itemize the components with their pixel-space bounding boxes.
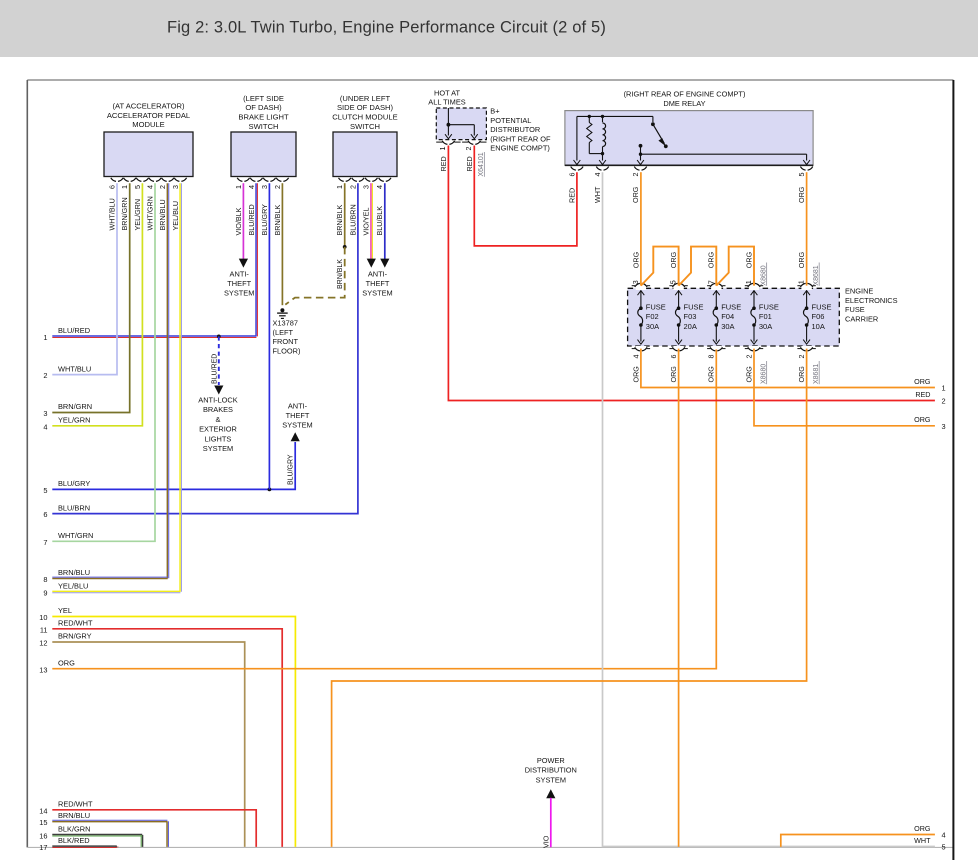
connector label X8681 bottom [813,361,820,384]
node pin 9 (YEL/BLU) left connector [43,581,88,597]
svg-text:ORG: ORG [914,824,931,833]
node brake light switch pin 4 [247,178,263,236]
svg-text:BRN/BLU: BRN/BLU [58,811,90,820]
svg-text:BRN/BLU: BRN/BLU [58,568,90,577]
svg-text:(RIGHT REAR OF ENGINE COMPT): (RIGHT REAR OF ENGINE COMPT) [624,89,746,98]
svg-text:6: 6 [669,355,678,359]
svg-text:6: 6 [107,185,116,189]
svg-text:ORG: ORG [914,415,931,424]
svg-text:1: 1 [120,185,129,189]
node pin 12 (BRN/GRY) left connector [39,632,91,648]
wire BRN/BLU from pin 15 [52,820,168,847]
svg-text:FUSE: FUSE [721,303,741,312]
svg-text:7: 7 [706,280,715,284]
svg-text:3: 3 [260,185,269,189]
svg-text:BLK/RED: BLK/RED [58,836,90,845]
svg-text:4: 4 [631,355,640,359]
B+ potential distributor box [436,108,486,140]
wire BLK/RED from pin 17 [52,846,118,847]
wire BRN/BLK clutch pin1 solid [343,183,347,249]
svg-text:POWER: POWER [537,756,565,765]
wire BRN/GRN from pin 3 [52,183,129,412]
fuse F03 20A [675,291,703,345]
svg-text:FUSE: FUSE [759,303,779,312]
svg-text:ORG: ORG [707,366,716,383]
svg-text:ANTI-: ANTI- [288,402,308,411]
svg-text:YEL/GRN: YEL/GRN [58,416,90,425]
svg-text:ENGINE: ENGINE [845,287,873,296]
wire YEL from pin 10 [52,617,295,847]
svg-text:5: 5 [797,173,806,177]
svg-text:1: 1 [942,384,946,393]
svg-text:Fig 2: 3.0L Twin Turbo, Engine: Fig 2: 3.0L Twin Turbo, Engine Performan… [167,19,606,37]
power distribution system label [525,756,577,784]
node pin 7 (WHT/GRN) left connector [43,531,93,547]
svg-text:(LEFT: (LEFT [273,328,294,337]
wire BRN/GRY from pin 12 [52,642,244,847]
svg-text:&: & [216,415,221,424]
wire WHT/BLU from pin 2 [52,183,117,374]
svg-text:RED/WHT: RED/WHT [58,800,93,809]
svg-text:2: 2 [348,185,357,189]
wire BLU/RED dashed branch to anti-lock brakes [211,336,223,394]
svg-text:ENGINE COMPT): ENGINE COMPT) [490,144,550,153]
svg-text:10: 10 [39,613,47,622]
module clutch module switch [332,94,397,177]
svg-text:DME RELAY: DME RELAY [663,99,705,108]
svg-text:3: 3 [43,409,47,418]
svg-text:17: 17 [39,843,47,852]
fuse F04 30A [713,291,741,345]
node fuse F01 bottom pin 2 [744,346,763,383]
wire BRN/BLK dashed to ground X13787 [285,247,344,305]
node fuse F04 top pin 7 [706,251,725,290]
node clutch switch pin 3 [362,178,378,236]
wire BLU/GRY brake pin3 [268,183,270,489]
wire RED/WHT from pin 14 [52,810,256,847]
svg-text:7: 7 [43,538,47,547]
wire RED B+ pin1 to right exit 2 [448,146,935,401]
svg-text:2: 2 [942,397,946,406]
node right exit 4 (ORG) [914,824,946,840]
node B+ pin 2 [462,141,486,172]
wire ORG relay pin5 to fuse F06 [806,172,808,285]
node pin 2 (WHT/BLU) left connector [43,364,91,380]
svg-text:YEL/BLU: YEL/BLU [171,201,180,231]
svg-text:BLU/GRY: BLU/GRY [58,479,90,488]
node pin 16 (BLK/GRN) left connector [39,825,90,841]
svg-text:1: 1 [744,280,753,284]
svg-text:THEFT: THEFT [286,411,310,420]
svg-text:RED: RED [439,156,448,171]
anti-lock brakes system label [198,396,237,454]
svg-text:6: 6 [567,173,576,177]
wire BRN/BLU from pin 8 [52,183,168,578]
wire VIO to power distribution system [541,789,555,848]
wire WHT/GRN from pin 7 [52,183,155,541]
svg-text:ORG: ORG [631,366,640,383]
svg-text:1: 1 [335,185,344,189]
svg-text:YEL: YEL [58,606,72,615]
svg-text:30A: 30A [646,322,659,331]
svg-text:(LEFT SIDE: (LEFT SIDE [243,94,284,103]
svg-text:LIGHTS: LIGHTS [205,434,232,443]
fuse F02 30A [638,291,666,345]
svg-text:OF DASH): OF DASH) [245,103,282,112]
svg-text:BRN/BLK: BRN/BLK [273,205,282,236]
svg-text:BRAKE LIGHT: BRAKE LIGHT [238,113,289,122]
connector label X64101 [478,152,485,177]
svg-text:FUSE: FUSE [646,303,666,312]
svg-text:RED: RED [567,188,576,203]
svg-text:RED: RED [915,390,930,399]
svg-text:4: 4 [375,185,384,189]
wire ORG jumper between fuse tops [679,247,717,286]
svg-text:VIO/YEL: VIO/YEL [362,208,371,236]
svg-text:4: 4 [43,422,47,431]
wire ORG fuse F06 down and left off page [332,349,807,847]
svg-text:1: 1 [797,280,806,284]
svg-text:BRN/BLU: BRN/BLU [158,199,167,230]
module accelerator pedal module [104,102,193,177]
node DME relay pin 5 [797,167,813,203]
svg-text:3: 3 [631,280,640,284]
wire BLU/BRN from pin 6 [52,183,358,513]
svg-text:ALL TIMES: ALL TIMES [428,98,465,107]
svg-text:F04: F04 [721,312,734,321]
svg-text:15: 15 [39,818,47,827]
node fuse F06 bottom pin 2 [797,346,816,383]
svg-text:BLU/BRN: BLU/BRN [58,503,90,512]
node accelerator module pin 2 [158,178,174,231]
svg-text:ORG: ORG [669,366,678,383]
svg-text:6: 6 [43,510,47,519]
relay internal resistor [587,115,592,154]
svg-text:ORG: ORG [669,251,678,268]
svg-text:FUSE: FUSE [845,305,865,314]
connector label X8680 bottom [760,361,767,384]
svg-text:5: 5 [43,486,47,495]
svg-text:BLU/GRY: BLU/GRY [288,454,295,485]
node right exit 2 (RED) [915,390,945,406]
node pin 4 (YEL/GRN) left connector [43,416,90,432]
node brake light switch pin 2 [273,178,289,236]
svg-text:2: 2 [273,185,282,189]
wire ORG fuse F01 to right exit 3 [754,349,935,426]
svg-text:ACCELERATOR PEDAL: ACCELERATOR PEDAL [107,111,190,120]
node accelerator module pin 3 [171,178,187,231]
node pin 10 (YEL) left connector [39,606,72,622]
label B+ potential distributor [490,107,551,153]
svg-text:DISTRIBUTION: DISTRIBUTION [525,766,577,775]
svg-text:ANTI-LOCK: ANTI-LOCK [198,396,237,405]
wire ORG from off page to right exit 4 [781,835,935,847]
node fuse F03 top pin 5 [669,251,688,290]
node DME relay pin 6 [567,167,583,203]
node right exit 1 (ORG) [914,377,946,393]
wire YEL/GRN from pin 4 [52,183,142,426]
svg-text:BRAKES: BRAKES [203,405,233,414]
svg-text:2: 2 [631,173,640,177]
svg-text:MODULE: MODULE [132,120,165,129]
svg-text:F06: F06 [812,312,825,321]
title bar [0,0,978,57]
svg-text:YEL/GRN: YEL/GRN [133,199,142,231]
svg-text:ANTI-: ANTI- [368,269,388,278]
svg-text:WHT/BLU: WHT/BLU [58,364,91,373]
svg-text:BRN/GRN: BRN/GRN [58,402,92,411]
node pin 17 (BLK/RED) left connector [39,836,89,852]
wire RED B+ pin2 to DME relay pin 6 [474,146,577,246]
svg-text:12: 12 [39,639,47,648]
svg-text:ORG: ORG [631,251,640,268]
wire YEL/BLU from pin 9 [52,183,181,593]
node fuse F01 top pin 1 [744,251,763,290]
node brake light switch pin 3 [260,178,276,236]
fuse carrier box [628,288,840,346]
svg-text:EXTERIOR: EXTERIOR [199,425,237,434]
svg-text:F03: F03 [684,312,697,321]
wire BLU/BLK clutch pin4 to anti-theft [380,183,389,267]
node accelerator module pin 1 [120,178,136,231]
node pin 15 (BRN/BLU) left connector [39,811,90,827]
node pin 1 (BLU/RED) left connector [43,326,90,342]
svg-text:CLUTCH MODULE: CLUTCH MODULE [332,113,397,122]
wire ORG from pin 13 [52,349,716,669]
ground X13787 [277,308,288,318]
svg-text:X13787: X13787 [273,319,298,328]
node right exit 3 (ORG) [914,415,946,431]
svg-text:ORG: ORG [797,186,806,203]
svg-text:ANTI-: ANTI- [230,269,250,278]
fuse F06 10A [803,291,831,345]
svg-text:5: 5 [942,843,946,852]
svg-text:YEL/BLU: YEL/BLU [58,581,88,590]
wire ORG jumper between fuse tops [641,247,679,286]
svg-text:FUSE: FUSE [812,303,832,312]
svg-text:(AT ACCELERATOR): (AT ACCELERATOR) [112,102,184,111]
node pin 13 (ORG) left connector [39,658,75,674]
connector label X8681 top [813,263,820,286]
svg-text:8: 8 [43,575,47,584]
svg-text:WHT/BLU: WHT/BLU [107,198,116,230]
svg-text:SYSTEM: SYSTEM [224,289,254,298]
svg-text:3: 3 [362,185,371,189]
svg-text:10A: 10A [812,322,825,331]
svg-text:ORG: ORG [631,186,640,203]
svg-text:F01: F01 [759,312,772,321]
wire WHT relay pin4 to right exit 5 [603,172,935,846]
svg-text:30A: 30A [721,322,734,331]
anti-theft system label (vio/blk) [224,269,254,297]
svg-text:FLOOR): FLOOR) [273,346,301,355]
node DME relay pin 2 [631,167,647,203]
svg-text:5: 5 [133,185,142,189]
module brake light switch [231,94,296,177]
ground label X13787 (left front floor) [273,319,301,356]
svg-text:SWITCH: SWITCH [350,122,380,131]
svg-text:FRONT: FRONT [273,337,299,346]
svg-text:RED/WHT: RED/WHT [58,619,93,628]
svg-text:BLU/GRY: BLU/GRY [260,204,269,236]
svg-text:WHT/GRN: WHT/GRN [145,196,154,230]
svg-text:BLU/BLK: BLU/BLK [375,206,384,236]
node accelerator module pin 6 [107,178,123,231]
svg-text:2: 2 [464,147,473,151]
node fuse F04 bottom pin 8 [707,346,726,383]
svg-text:BRN/GRN: BRN/GRN [120,197,129,230]
svg-text:5: 5 [669,280,678,284]
svg-text:1: 1 [234,185,243,189]
svg-text:SIDE OF DASH): SIDE OF DASH) [337,103,394,112]
svg-text:BLU/RED: BLU/RED [58,326,90,335]
svg-text:BRN/BLK: BRN/BLK [337,259,344,289]
node fuse F03 bottom pin 6 [669,346,688,383]
label engine electronics fuse carrier [845,287,898,324]
svg-text:4: 4 [942,831,946,840]
svg-text:8: 8 [707,355,716,359]
svg-text:WHT/GRN: WHT/GRN [58,531,93,540]
svg-text:B+: B+ [490,107,499,116]
wire ORG fuse F02 to right exit 1 [641,349,935,388]
wire BLU/GRY from pin 5 [52,432,299,491]
svg-text:11: 11 [40,625,48,634]
fuse F01 30A [751,291,779,345]
svg-text:(UNDER LEFT: (UNDER LEFT [340,94,391,103]
node fuse F02 bottom pin 4 [631,346,650,383]
wire BRN/BLK brake pin2 to ground [281,183,283,305]
svg-text:BLU/BRN: BLU/BRN [348,204,357,235]
svg-text:BLU/RED: BLU/RED [211,354,218,384]
node DME relay pin 4 [593,167,609,203]
svg-text:2: 2 [744,355,753,359]
node brake light switch pin 1 [234,178,250,236]
svg-text:DISTRIBUTOR: DISTRIBUTOR [490,125,540,134]
node fuse F02 top pin 3 [631,251,650,290]
svg-text:CARRIER: CARRIER [845,315,878,324]
svg-text:ORG: ORG [914,377,931,386]
node junction BLU/RED [217,335,221,339]
svg-text:13: 13 [39,665,47,674]
svg-text:4: 4 [247,185,256,189]
relay DME relay box [565,89,813,165]
svg-text:1: 1 [43,333,47,342]
wire ORG relay pin2 to fuse F02 [640,172,642,285]
svg-text:1: 1 [438,147,447,151]
node clutch switch pin 4 [375,178,391,236]
node accelerator module pin 5 [133,178,149,231]
svg-text:F02: F02 [646,312,659,321]
anti-theft system label (clutch) [362,269,392,297]
svg-text:WHT: WHT [593,186,602,203]
relay internal coil [589,115,606,165]
svg-text:THEFT: THEFT [227,279,251,288]
node fuse F06 top pin 1 [797,251,816,290]
connector label X8680 top [760,263,767,286]
wire VIO/BLK brake pin1 to anti-theft [239,183,248,267]
svg-text:3: 3 [942,422,946,431]
node pin 3 (BRN/GRN) left connector [43,402,92,418]
svg-text:BRN/GRY: BRN/GRY [58,632,92,641]
node pin 6 (BLU/BRN) left connector [43,503,90,519]
svg-text:2: 2 [43,371,47,380]
svg-text:THEFT: THEFT [366,279,390,288]
node pin 5 (BLU/GRY) left connector [43,479,90,495]
svg-text:ORG: ORG [797,251,806,268]
svg-text:2: 2 [158,185,167,189]
svg-text:WHT: WHT [914,836,931,845]
svg-text:SYSTEM: SYSTEM [362,289,392,298]
svg-text:SYSTEM: SYSTEM [282,421,312,430]
svg-text:SYSTEM: SYSTEM [203,444,233,453]
svg-text:3: 3 [171,185,180,189]
node clutch switch pin 1 [335,178,351,236]
svg-text:HOT AT: HOT AT [434,89,460,98]
wire RED/WHT from pin 11 [52,629,282,847]
svg-text:POTENTIAL: POTENTIAL [490,116,531,125]
svg-text:16: 16 [39,832,47,841]
B+ distributor internal wiring [445,108,478,139]
node pin 14 (RED/WHT) left connector [39,800,93,816]
svg-text:ORG: ORG [744,366,753,383]
svg-text:(RIGHT REAR OF: (RIGHT REAR OF [490,134,551,143]
svg-text:BRN/BLK: BRN/BLK [335,205,344,236]
relay internal switch [637,116,810,164]
node right exit 5 (WHT) [914,836,946,852]
node B+ pin 1 [436,141,460,172]
svg-text:9: 9 [43,588,47,597]
svg-text:SWITCH: SWITCH [249,122,279,131]
svg-text:4: 4 [593,173,602,177]
svg-text:VIO: VIO [541,835,550,848]
node pin 11 (RED/WHT) left connector [40,619,93,635]
relay internal: feed wire [574,116,653,164]
hot at all times label [428,89,465,107]
svg-text:ORG: ORG [744,251,753,268]
anti-theft system label (blu/gry) [282,402,312,430]
svg-text:ORG: ORG [58,658,75,667]
svg-text:ORG: ORG [707,251,716,268]
svg-text:ELECTRONICS: ELECTRONICS [845,296,898,305]
node clutch switch pin 2 [348,178,364,236]
svg-text:VIO/BLK: VIO/BLK [234,207,243,235]
svg-text:4: 4 [145,185,154,189]
svg-text:20A: 20A [684,322,697,331]
svg-text:FUSE: FUSE [684,303,704,312]
wire VIO/YEL clutch pin3 to anti-theft [367,183,376,267]
wire BLK/GRN from pin 16 [52,835,142,847]
svg-text:2: 2 [797,355,806,359]
wire BLU/RED from pin 1 [52,183,257,337]
svg-text:14: 14 [39,806,47,815]
svg-text:ORG: ORG [797,366,806,383]
node pin 8 (BRN/BLU) left connector [43,568,90,584]
svg-text:30A: 30A [759,322,772,331]
svg-text:SYSTEM: SYSTEM [536,775,566,784]
wire ORG jumper between fuse tops [716,247,754,286]
wire ORG fuse F03 down off page [678,349,680,847]
svg-text:BLK/GRN: BLK/GRN [58,825,90,834]
svg-text:BLU/RED: BLU/RED [247,204,256,235]
node accelerator module pin 4 [145,178,161,231]
svg-text:RED: RED [465,156,474,171]
